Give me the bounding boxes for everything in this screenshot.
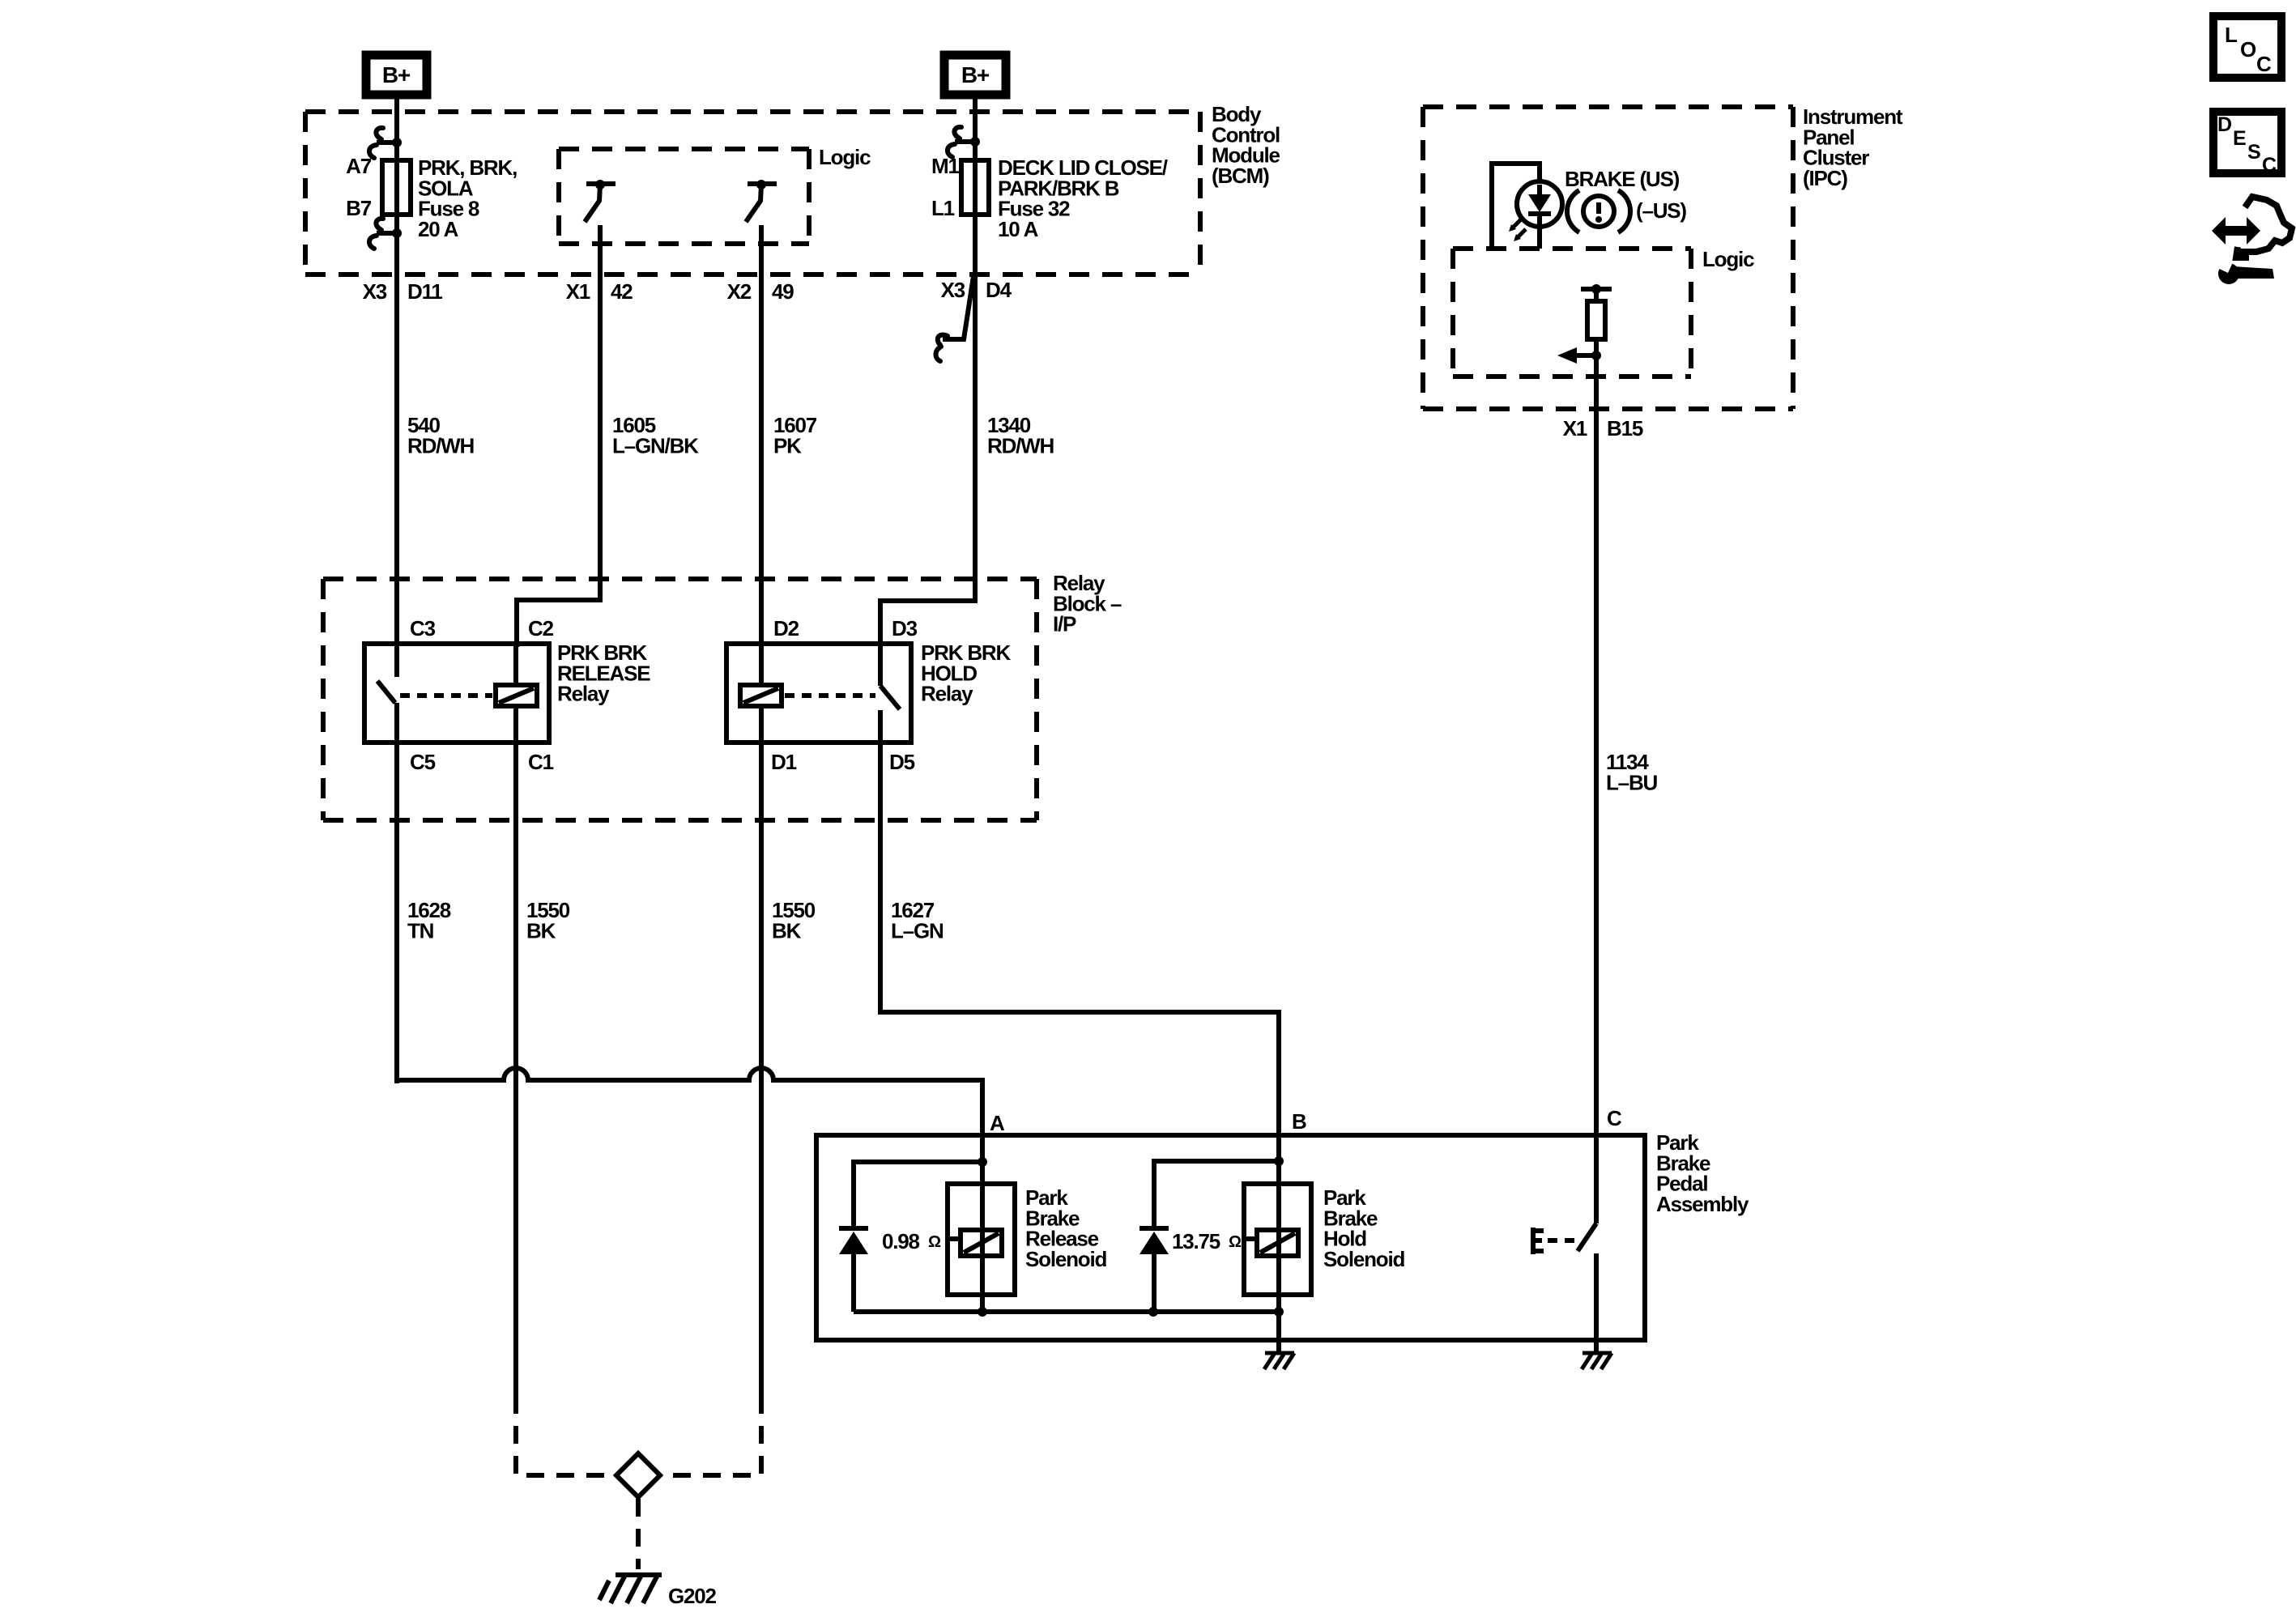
svg-text:L1: L1 <box>931 196 955 220</box>
ground G202 symbol <box>616 1572 662 1577</box>
svg-text:D11: D11 <box>407 279 442 304</box>
LED emission arrows <box>1511 219 1521 229</box>
hold solenoid coil <box>1257 1230 1298 1256</box>
svg-text:13.75: 13.75 <box>1172 1229 1220 1253</box>
wire B to diode 2 <box>1154 1161 1279 1228</box>
BCM switch S2 <box>748 181 777 186</box>
relay K1 box <box>364 644 549 743</box>
IPC resistor stub <box>1581 287 1612 291</box>
svg-text:A7: A7 <box>346 154 372 178</box>
svg-text:BK: BK <box>526 918 556 943</box>
release solenoid coil <box>961 1230 1002 1256</box>
svg-text:Solenoid: Solenoid <box>1025 1247 1106 1271</box>
svg-text:A: A <box>990 1111 1005 1135</box>
svg-text:Solenoid: Solenoid <box>1323 1247 1404 1271</box>
node A junction <box>978 1157 987 1167</box>
B+ power symbol 1 <box>366 55 427 95</box>
svg-text:D4: D4 <box>986 278 1012 302</box>
relay K1 switch <box>394 644 399 677</box>
hold solenoid body <box>1244 1184 1311 1295</box>
svg-text:C3: C3 <box>410 616 436 640</box>
svg-text:S: S <box>2247 141 2260 164</box>
svg-text:X3: X3 <box>363 279 387 304</box>
wire 1550 BK left solid <box>513 743 518 1396</box>
connector at M1 <box>970 137 980 147</box>
svg-text:Logic: Logic <box>819 145 871 169</box>
svg-text:B+: B+ <box>382 62 411 87</box>
relay K1 coil <box>496 685 537 706</box>
svg-text:42: 42 <box>611 279 633 304</box>
svg-text:RD/WH: RD/WH <box>987 433 1054 457</box>
BCM switch S1 <box>586 181 616 186</box>
svg-text:C: C <box>2262 154 2277 177</box>
relay K1 actuation dashes <box>400 693 492 698</box>
svg-text:L–BU: L–BU <box>1606 770 1658 794</box>
IPC logic dashed box <box>1453 246 1691 251</box>
svg-text:Relay: Relay <box>921 682 973 706</box>
svg-text:TN: TN <box>407 918 434 943</box>
svg-text:BK: BK <box>772 918 802 943</box>
diode 2 <box>1139 1226 1169 1231</box>
svg-text:O: O <box>2240 37 2256 62</box>
wire 1550 BK left dashed <box>516 1396 613 1475</box>
wire through release solenoid <box>980 1162 985 1312</box>
svg-text:D: D <box>2217 113 2231 136</box>
wire B+1 to fuse 8 <box>394 95 399 164</box>
wire D2 pin <box>759 644 764 685</box>
LED brake lamp <box>1517 181 1562 227</box>
svg-text:D1: D1 <box>771 750 797 774</box>
svg-text:I/P: I/P <box>1053 612 1076 636</box>
wire S2 to relay D2 <box>759 225 764 647</box>
svg-text:C2: C2 <box>528 616 554 640</box>
svg-text:20 A: 20 A <box>418 217 459 241</box>
wire through hold solenoid <box>1276 1161 1281 1312</box>
svg-text:Ω: Ω <box>1229 1233 1242 1251</box>
wire C1 pin <box>513 706 518 743</box>
wire diamond to G202 <box>636 1499 641 1569</box>
BCM module dashed box <box>305 109 1200 114</box>
relay K2 box <box>726 644 911 743</box>
connector at A7 <box>392 138 402 147</box>
svg-text:Assembly: Assembly <box>1656 1192 1749 1216</box>
splice diamond <box>616 1453 660 1497</box>
svg-text:X1: X1 <box>1563 416 1587 440</box>
svg-text:B: B <box>1292 1109 1306 1134</box>
connector at X3 D4 <box>943 276 973 339</box>
wire S1 to jog <box>517 225 600 647</box>
wire 1627 L-GN run <box>880 743 1279 1161</box>
svg-text:(IPC): (IPC) <box>1803 166 1847 190</box>
pedal linkage E symbol <box>1531 1228 1536 1254</box>
svg-text:D2: D2 <box>773 616 799 640</box>
svg-text:49: 49 <box>772 279 794 304</box>
wire 1628 TN run <box>394 743 399 1080</box>
svg-text:C1: C1 <box>528 750 554 774</box>
svg-text:0.98: 0.98 <box>882 1229 920 1253</box>
node B junction <box>1274 1156 1284 1166</box>
svg-text:C: C <box>2256 52 2272 76</box>
svg-text:L: L <box>2225 23 2238 47</box>
LOC reference box <box>2213 16 2281 78</box>
relay K2 switch <box>878 644 883 686</box>
wire fuse 32 down <box>973 212 978 601</box>
wire 1550 BK right solid <box>759 743 764 1396</box>
svg-text:X2: X2 <box>727 279 752 304</box>
LED indicator wiring <box>1492 164 1540 249</box>
svg-text:C5: C5 <box>410 750 436 774</box>
wire hold solenoid to ground <box>1276 1312 1281 1353</box>
IPC resistor <box>1587 301 1605 339</box>
wire diode 1 down <box>851 1254 856 1312</box>
svg-text:G202: G202 <box>668 1584 717 1608</box>
svg-text:Ω: Ω <box>928 1233 941 1251</box>
svg-text:B+: B+ <box>961 62 990 87</box>
svg-text:M1: M1 <box>931 154 959 178</box>
svg-text:Relay: Relay <box>557 682 610 706</box>
diode 1 <box>839 1226 868 1231</box>
IPC dashed box <box>1423 104 1793 109</box>
IPC sense arrow <box>1594 339 1599 409</box>
svg-text:X1: X1 <box>566 279 590 304</box>
wire fuse 8 to relay C3 <box>394 212 399 647</box>
svg-text:B15: B15 <box>1607 416 1643 440</box>
svg-text:C: C <box>1607 1106 1622 1130</box>
wire C2 pin <box>513 644 518 685</box>
ground at pedal switch <box>1582 1351 1612 1355</box>
svg-text:RD/WH: RD/WH <box>407 433 475 457</box>
wire inside fuse 32 <box>973 164 978 212</box>
svg-text:D5: D5 <box>889 750 915 774</box>
svg-text:PK: PK <box>773 433 802 457</box>
relay K2 coil <box>740 685 782 706</box>
wire 1134 L-BU <box>1594 409 1599 1138</box>
B+ power symbol 2 <box>944 55 1006 95</box>
svg-text:E: E <box>2233 127 2246 150</box>
wire D1 pin <box>759 706 764 743</box>
svg-text:Logic: Logic <box>1702 247 1754 271</box>
pedal linkage dashes <box>1548 1238 1574 1243</box>
wire inside fuse 8 <box>394 164 399 212</box>
hold solenoid tick <box>1244 1236 1257 1241</box>
release solenoid body <box>948 1184 1015 1295</box>
wire B+2 to fuse 32 <box>973 95 978 164</box>
wire diode 2 down <box>1152 1254 1157 1312</box>
pedal switch <box>1594 1138 1599 1223</box>
svg-text:10 A: 10 A <box>998 217 1039 241</box>
svg-text:X3: X3 <box>941 278 965 302</box>
brake telltale symbol <box>1567 190 1579 232</box>
wire 1550 BK right dashed <box>662 1396 761 1475</box>
release solenoid tick <box>948 1236 961 1241</box>
svg-text:(–US): (–US) <box>1636 198 1686 223</box>
fuse 8 body <box>382 160 411 215</box>
connector at B7 <box>392 228 402 238</box>
BCM logic dashed box <box>559 147 809 151</box>
svg-text:D3: D3 <box>892 616 918 640</box>
fuse 32 body <box>961 160 989 215</box>
solenoid ground bus <box>854 1309 1279 1314</box>
svg-text:L–GN: L–GN <box>891 918 944 943</box>
svg-text:L–GN/BK: L–GN/BK <box>612 433 699 457</box>
wire jog to relay D3 <box>880 598 975 647</box>
relay block dashed box <box>323 577 1037 581</box>
pedal assembly box <box>816 1135 1645 1340</box>
wire A to diode 1 <box>854 1162 982 1228</box>
svg-text:BRAKE (US): BRAKE (US) <box>1565 167 1680 191</box>
svg-text:B7: B7 <box>346 196 372 220</box>
relay K2 actuation dashes <box>785 693 875 698</box>
DESC reference box <box>2213 112 2281 173</box>
svg-text:(BCM): (BCM) <box>1212 164 1269 188</box>
hand-arrow-wrench icon <box>2212 217 2260 245</box>
ground at hold solenoid <box>1265 1351 1294 1355</box>
